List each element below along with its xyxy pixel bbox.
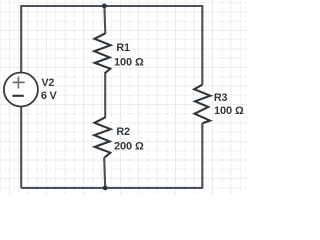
- wire middle lower: [104, 157, 105, 188]
- wire left lower: [20, 106, 22, 188]
- node junction top: [102, 4, 107, 9]
- wire top: [21, 5, 202, 7]
- svg-text:R3: R3: [214, 92, 228, 104]
- wire bottom: [21, 187, 202, 189]
- resistor R2: [94, 117, 110, 157]
- svg-text:R2: R2: [116, 126, 130, 138]
- wire middle mid: [104, 73, 106, 117]
- resistor R3: [194, 85, 210, 124]
- wire left upper: [20, 5, 22, 73]
- wire right lower: [201, 123, 203, 189]
- svg-text:100 Ω: 100 Ω: [114, 56, 144, 68]
- svg-text:200 Ω: 200 Ω: [114, 140, 144, 152]
- resistor R1: [94, 33, 110, 73]
- svg-text:6 V: 6 V: [41, 90, 58, 102]
- svg-text:R1: R1: [116, 42, 130, 54]
- svg-text:V2: V2: [41, 77, 54, 89]
- wire middle upper: [103, 6, 106, 33]
- svg-text:100 Ω: 100 Ω: [214, 105, 244, 117]
- node junction bottom: [103, 186, 108, 191]
- voltage source V2: [4, 73, 38, 107]
- wire right upper: [201, 5, 203, 85]
